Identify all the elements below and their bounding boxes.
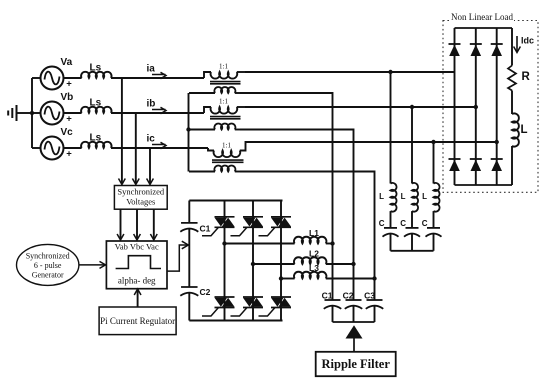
svg-text:C: C bbox=[422, 219, 428, 228]
svg-text:+: + bbox=[66, 149, 72, 160]
svg-text:Synchronized: Synchronized bbox=[117, 187, 164, 197]
svg-text:L2: L2 bbox=[309, 249, 319, 259]
svg-text:C2: C2 bbox=[200, 287, 211, 297]
svg-text:L: L bbox=[379, 192, 384, 201]
svg-text:L3: L3 bbox=[309, 263, 319, 273]
svg-text:Vab Vbc Vac: Vab Vbc Vac bbox=[115, 242, 159, 252]
svg-text:1:1: 1:1 bbox=[219, 98, 228, 106]
svg-text:Va: Va bbox=[61, 57, 73, 68]
svg-text:Idc: Idc bbox=[521, 36, 534, 46]
svg-text:C2: C2 bbox=[343, 291, 354, 301]
svg-text:Voltages: Voltages bbox=[126, 197, 155, 207]
svg-text:1:1: 1:1 bbox=[222, 142, 231, 150]
svg-text:L1: L1 bbox=[309, 228, 319, 238]
svg-text:C: C bbox=[379, 219, 385, 228]
svg-text:C3: C3 bbox=[364, 291, 375, 301]
svg-text:ia: ia bbox=[147, 64, 156, 75]
svg-text:Generator: Generator bbox=[32, 271, 64, 280]
svg-text:Pi Current Regulator: Pi Current Regulator bbox=[100, 316, 175, 326]
svg-text:Vc: Vc bbox=[61, 127, 74, 138]
svg-text:alpha- deg: alpha- deg bbox=[118, 276, 156, 286]
svg-text:L: L bbox=[401, 192, 406, 201]
svg-text:C1: C1 bbox=[200, 224, 211, 234]
svg-text:L: L bbox=[422, 192, 427, 201]
svg-text:ic: ic bbox=[147, 134, 156, 145]
svg-text:1:1: 1:1 bbox=[219, 63, 228, 71]
svg-text:ib: ib bbox=[147, 99, 156, 110]
svg-text:+: + bbox=[66, 79, 72, 90]
svg-text:Ripple Filter: Ripple Filter bbox=[322, 357, 391, 371]
svg-text:Ls: Ls bbox=[90, 98, 102, 109]
svg-text:Ls: Ls bbox=[90, 133, 102, 144]
svg-text:Ls: Ls bbox=[90, 63, 102, 74]
svg-text:R: R bbox=[522, 71, 531, 83]
svg-text:Non Linear Load: Non Linear Load bbox=[451, 12, 513, 22]
svg-text:C: C bbox=[400, 219, 406, 228]
svg-text:Synchronized: Synchronized bbox=[26, 252, 70, 261]
svg-text:6 - pulse: 6 - pulse bbox=[34, 261, 62, 270]
svg-text:C1: C1 bbox=[322, 291, 333, 301]
svg-text:Vb: Vb bbox=[61, 92, 74, 103]
svg-text:L: L bbox=[521, 124, 528, 136]
svg-text:+: + bbox=[66, 114, 72, 125]
